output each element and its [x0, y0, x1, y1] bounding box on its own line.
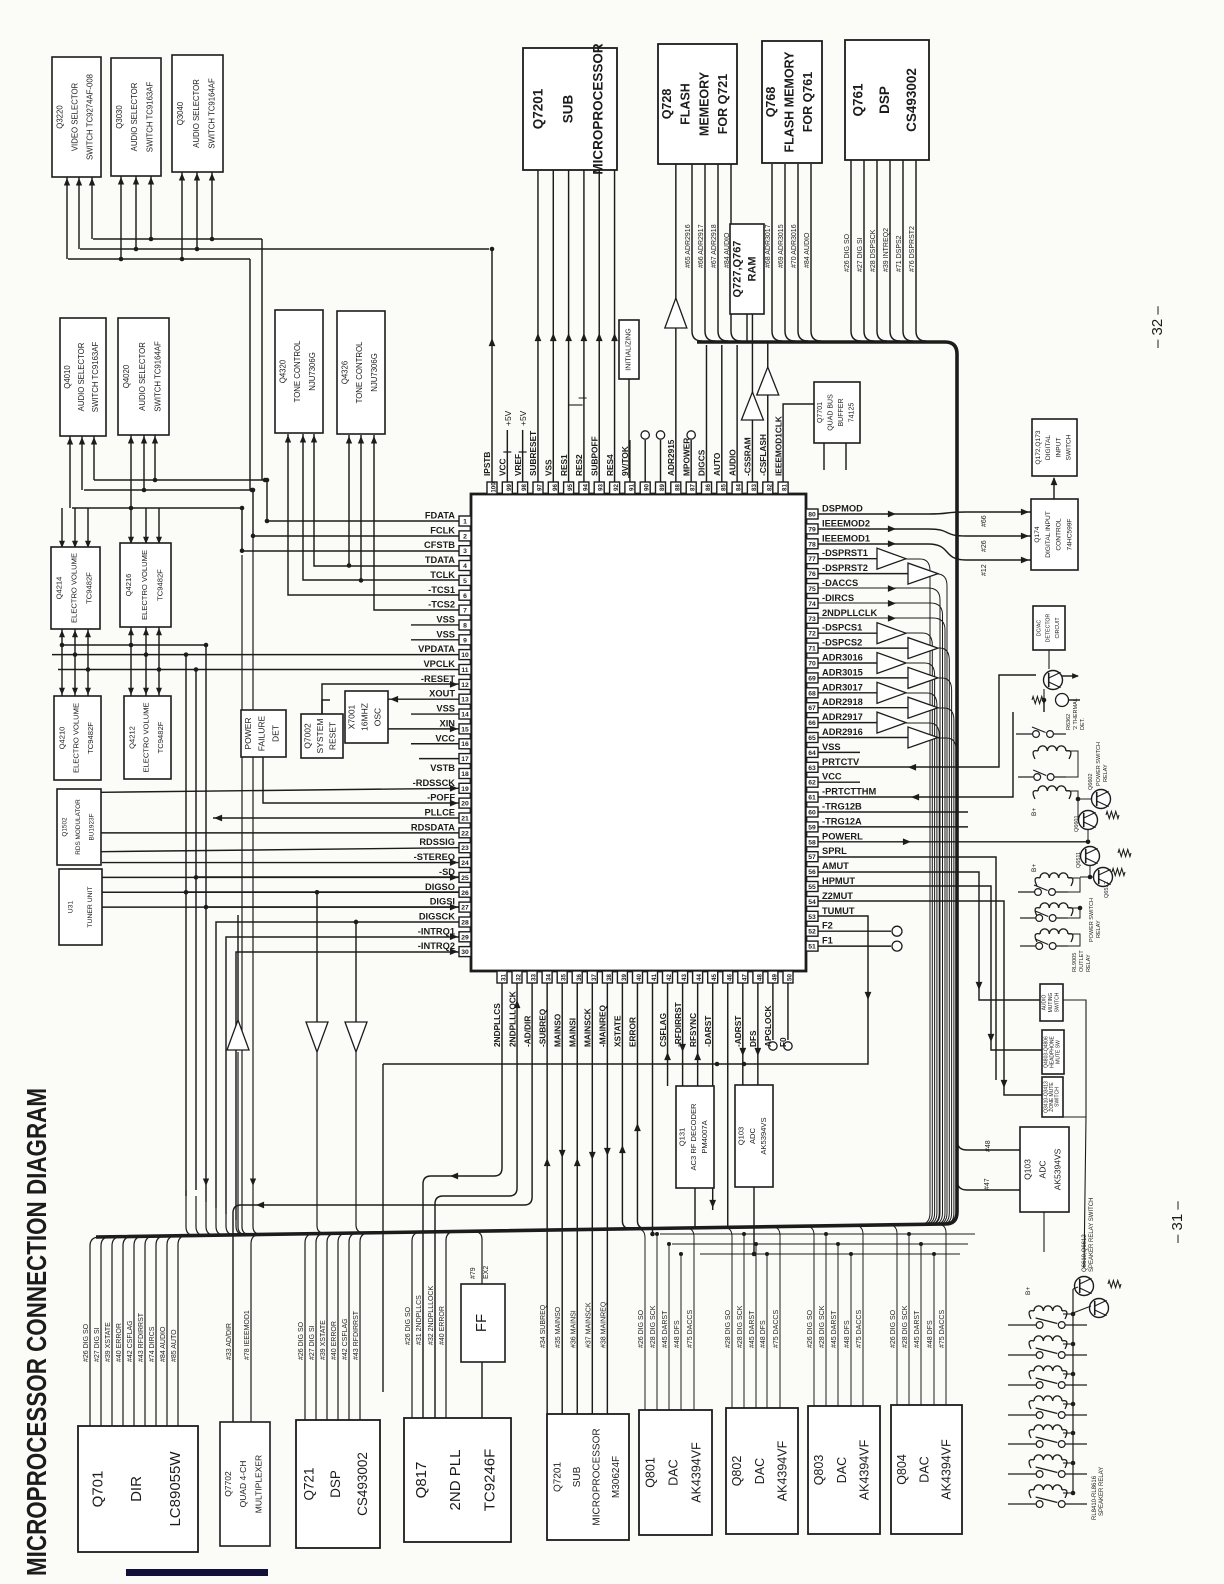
svg-text:RELAY: RELAY	[1096, 920, 1102, 938]
svg-text:-TCS1: -TCS1	[428, 585, 455, 595]
svg-text:#28 DIG SCK: #28 DIG SCK	[650, 1305, 657, 1348]
svg-text:INITIALIZING: INITIALIZING	[625, 328, 632, 370]
svg-text:Q727,Q767: Q727,Q767	[732, 241, 744, 298]
svg-text:AUDIO SELECTOR: AUDIO SELECTOR	[138, 342, 147, 411]
svg-text:DIR: DIR	[128, 1476, 145, 1502]
svg-text:ELECTRO VOLUME: ELECTRO VOLUME	[72, 703, 81, 773]
svg-text:Q3220: Q3220	[56, 105, 65, 129]
svg-text:VCC: VCC	[435, 733, 455, 743]
svg-text:90: 90	[644, 484, 651, 491]
svg-text:#26: #26	[981, 540, 988, 552]
svg-text:M30624F: M30624F	[611, 1456, 622, 1498]
svg-text:#26 DIG SO: #26 DIG SO	[405, 1306, 412, 1345]
svg-text:ELECTRO VOLUME: ELECTRO VOLUME	[140, 550, 149, 620]
svg-text:18: 18	[461, 771, 469, 778]
svg-text:SPEAKER RELAY SWITCH: SPEAKER RELAY SWITCH	[1089, 1198, 1095, 1272]
svg-text:-DARST: -DARST	[703, 1016, 713, 1047]
svg-text:F1: F1	[822, 936, 833, 946]
svg-text:#26 DIG SO: #26 DIG SO	[638, 1309, 645, 1348]
svg-text:87: 87	[690, 484, 697, 491]
svg-text:#42 CSFLAG: #42 CSFLAG	[342, 1318, 349, 1360]
svg-text:F0: F0	[778, 1037, 788, 1047]
svg-text:DIGITAL: DIGITAL	[1045, 435, 1052, 460]
svg-text:+5V: +5V	[503, 410, 513, 426]
svg-text:Q7701: Q7701	[817, 402, 824, 423]
svg-text:FAILURE: FAILURE	[257, 715, 267, 751]
svg-text:EX2: EX2	[483, 1266, 490, 1279]
svg-text:AK4394VF: AK4394VF	[776, 1440, 790, 1501]
svg-text:RL9005: RL9005	[1072, 953, 1078, 972]
svg-text:VIDEO SELECTOR: VIDEO SELECTOR	[71, 82, 80, 151]
svg-text:-ADRST: -ADRST	[733, 1016, 743, 1047]
svg-text:50: 50	[786, 974, 793, 981]
svg-text:ADR3015: ADR3015	[822, 667, 863, 677]
svg-text:#75 DACCS: #75 DACCS	[939, 1310, 946, 1348]
svg-text:#39 XSTATE: #39 XSTATE	[105, 1322, 112, 1362]
svg-text:67: 67	[808, 705, 816, 712]
svg-text:B+: B+	[1031, 808, 1038, 816]
svg-text:FCLK: FCLK	[430, 525, 455, 535]
svg-text:#45 DARST: #45 DARST	[749, 1310, 756, 1348]
svg-text:27: 27	[461, 905, 469, 912]
svg-text:#66 ADR2917: #66 ADR2917	[698, 224, 705, 268]
svg-text:-STEREO: -STEREO	[414, 852, 455, 862]
svg-text:70: 70	[808, 661, 816, 668]
svg-text:ADR3017: ADR3017	[822, 682, 863, 692]
svg-text:71: 71	[808, 646, 816, 653]
svg-text:RAM: RAM	[747, 256, 759, 281]
svg-text:-TRG12A: -TRG12A	[822, 816, 862, 826]
svg-text:MPOWER: MPOWER	[681, 438, 691, 476]
svg-text:66: 66	[808, 720, 816, 727]
svg-text:Q1502: Q1502	[62, 817, 69, 837]
svg-text:BU1923F: BU1923F	[88, 813, 95, 840]
svg-text:33: 33	[531, 974, 538, 981]
svg-text:MICROPROCESSOR: MICROPROCESSOR	[591, 1428, 602, 1525]
svg-text:NJU7306G: NJU7306G	[370, 353, 379, 392]
svg-text:#39 XSTATE: #39 XSTATE	[320, 1320, 327, 1360]
svg-text:#28 DIG SCK: #28 DIG SCK	[902, 1305, 909, 1348]
svg-text:26: 26	[461, 890, 469, 897]
svg-text:32: 32	[516, 974, 523, 981]
svg-text:ELECTRO VOLUME: ELECTRO VOLUME	[70, 553, 79, 623]
svg-text:POWER SWITCH: POWER SWITCH	[1096, 742, 1102, 786]
svg-text:XOUT: XOUT	[429, 689, 455, 699]
svg-text:9V/TOK: 9V/TOK	[620, 446, 630, 476]
svg-text:Q6512: Q6512	[1104, 881, 1110, 898]
svg-text:57: 57	[808, 854, 816, 861]
svg-text:92: 92	[613, 484, 620, 491]
svg-text:#28 DIG SCK: #28 DIG SCK	[737, 1305, 744, 1348]
svg-text:SWITCH: SWITCH	[1066, 434, 1073, 460]
svg-text:Q4320: Q4320	[279, 359, 288, 383]
svg-text:34: 34	[546, 974, 553, 981]
svg-text:#65 ADR2916: #65 ADR2916	[685, 224, 692, 268]
svg-text:+5V: +5V	[518, 410, 528, 426]
svg-text:13: 13	[461, 697, 469, 704]
svg-text:Q803: Q803	[812, 1455, 826, 1486]
svg-text:SWITCH: SWITCH	[1055, 1087, 1061, 1107]
svg-text:9: 9	[463, 637, 467, 644]
svg-text:39: 39	[621, 974, 628, 981]
svg-text:17: 17	[461, 756, 469, 763]
svg-text:#36 MAINSI: #36 MAINSI	[570, 1310, 577, 1348]
svg-text:29: 29	[461, 934, 469, 941]
svg-text:Z2MUT: Z2MUT	[822, 891, 853, 901]
svg-text:AUDIO SELECTOR: AUDIO SELECTOR	[192, 79, 201, 148]
svg-text:Q3030: Q3030	[115, 105, 124, 129]
svg-text:VCC: VCC	[498, 458, 508, 476]
svg-text:DSP: DSP	[328, 1470, 343, 1498]
svg-text:#84 AUDIO: #84 AUDIO	[804, 232, 811, 268]
svg-text:MAINSO: MAINSO	[552, 1013, 562, 1047]
svg-text:CSFLAG: CSFLAG	[658, 1013, 668, 1047]
svg-text:B+: B+	[1025, 1287, 1032, 1295]
svg-text:#78 IEEEMOD1: #78 IEEEMOD1	[244, 1310, 251, 1360]
svg-text:60: 60	[808, 810, 816, 817]
svg-text:-POFF: -POFF	[427, 793, 455, 803]
svg-text:XSTATE: XSTATE	[613, 1015, 623, 1047]
svg-text:Q801: Q801	[643, 1457, 657, 1488]
svg-text:AUDIO: AUDIO	[727, 449, 737, 476]
svg-text:#48 DFS: #48 DFS	[760, 1320, 767, 1348]
svg-text:10: 10	[461, 652, 469, 659]
svg-text:-INTRQ2: -INTRQ2	[418, 941, 455, 951]
svg-text:Q172,Q173: Q172,Q173	[1035, 430, 1042, 464]
svg-text:#42 CSFLAG: #42 CSFLAG	[127, 1320, 134, 1362]
svg-text:Q761: Q761	[851, 83, 866, 117]
svg-text:MUTE SW: MUTE SW	[1056, 1040, 1062, 1064]
svg-text:#48 DFS: #48 DFS	[844, 1320, 851, 1348]
svg-text:#47: #47	[984, 1178, 991, 1190]
svg-text:22: 22	[461, 830, 469, 837]
svg-text:DSP: DSP	[877, 86, 892, 114]
svg-text:Q701: Q701	[89, 1471, 106, 1508]
svg-text:SWITCH: SWITCH	[1054, 992, 1060, 1012]
svg-text:CFSTB: CFSTB	[424, 540, 455, 550]
svg-text:Q4212: Q4212	[127, 726, 136, 749]
svg-text:72: 72	[808, 631, 816, 638]
svg-text:80: 80	[808, 512, 816, 519]
svg-text:CIRCUIT: CIRCUIT	[1055, 617, 1061, 639]
svg-text:-DSPRST2: -DSPRST2	[822, 563, 868, 573]
svg-text:14: 14	[461, 712, 469, 719]
svg-text:#26 DIG SO: #26 DIG SO	[844, 233, 851, 272]
svg-text:#75 DACCS: #75 DACCS	[687, 1310, 694, 1348]
svg-text:SWITCH TC9164AF: SWITCH TC9164AF	[153, 341, 162, 412]
svg-text:#27 DIG SI: #27 DIG SI	[857, 237, 864, 272]
svg-text:TONE CONTROL: TONE CONTROL	[293, 340, 302, 402]
svg-text:VSS: VSS	[436, 614, 455, 624]
svg-text:#26 DIG SO: #26 DIG SO	[807, 1309, 814, 1348]
svg-text:#45 DARST: #45 DARST	[831, 1310, 838, 1348]
svg-text:93: 93	[598, 484, 605, 491]
svg-text:2NDPLLCS: 2NDPLLCS	[492, 1003, 502, 1047]
svg-text:Q817: Q817	[413, 1462, 430, 1499]
svg-text:2: 2	[463, 533, 467, 540]
svg-text:-SD: -SD	[439, 867, 455, 877]
svg-text:44: 44	[696, 974, 703, 981]
svg-text:Q728: Q728	[660, 89, 674, 120]
svg-text:#26 DIG SO: #26 DIG SO	[298, 1321, 305, 1360]
svg-text:#71 DSPS2: #71 DSPS2	[896, 235, 903, 272]
svg-text:MULTIPLEXER: MULTIPLEXER	[254, 1455, 264, 1513]
svg-text:FOR Q721: FOR Q721	[716, 74, 730, 134]
svg-text:#31 2NDPLLCS: #31 2NDPLLCS	[416, 1295, 423, 1345]
svg-text:RDSDATA: RDSDATA	[411, 822, 455, 832]
svg-text:#12: #12	[981, 564, 988, 576]
svg-text:SWITCH TC9274AF-008: SWITCH TC9274AF-008	[86, 74, 95, 160]
svg-text:SYSTEM: SYSTEM	[315, 719, 325, 754]
svg-text:#32 2NDPLLLOCK: #32 2NDPLLLOCK	[428, 1286, 435, 1345]
svg-text:52: 52	[808, 929, 816, 936]
svg-text:B+: B+	[1031, 864, 1038, 872]
svg-text:-RDSSCK: -RDSSCK	[413, 778, 456, 788]
svg-text:POWER SWITCH: POWER SWITCH	[1089, 898, 1095, 942]
svg-text:96: 96	[552, 484, 559, 491]
svg-text:#84 AUDIO: #84 AUDIO	[160, 1326, 167, 1362]
svg-text:VSS: VSS	[436, 704, 455, 714]
svg-text:#75 DACCS: #75 DACCS	[856, 1310, 863, 1348]
svg-text:#68 ADR3017: #68 ADR3017	[765, 224, 772, 268]
svg-text:MAINSI: MAINSI	[567, 1018, 577, 1047]
svg-text:#35 MAINSO: #35 MAINSO	[555, 1306, 562, 1348]
svg-text:8: 8	[463, 623, 467, 630]
svg-text:#48 DFS: #48 DFS	[927, 1320, 934, 1348]
svg-text:#43 RFDIRRST: #43 RFDIRRST	[353, 1310, 360, 1360]
svg-text:FLASH: FLASH	[679, 83, 693, 125]
svg-text:Q721: Q721	[302, 1467, 317, 1500]
svg-text:R6362: R6362	[1066, 714, 1072, 730]
svg-text:-DACCS: -DACCS	[822, 578, 858, 588]
svg-text:AUDIO SELECTOR: AUDIO SELECTOR	[130, 82, 139, 151]
svg-text:AK4394VF: AK4394VF	[689, 1442, 703, 1503]
svg-text:#40 ERROR: #40 ERROR	[331, 1321, 338, 1360]
svg-text:DIGSO: DIGSO	[425, 882, 455, 892]
svg-text:#37 MAINSCK: #37 MAINSCK	[585, 1302, 592, 1348]
svg-text:HPMUT: HPMUT	[822, 876, 855, 886]
svg-text:99: 99	[506, 484, 513, 491]
svg-text:MUTING: MUTING	[1048, 993, 1054, 1013]
svg-text:74HC599F: 74HC599F	[1067, 519, 1074, 551]
svg-text:-DIRCS: -DIRCS	[822, 593, 854, 603]
svg-text:FOR Q761: FOR Q761	[801, 72, 815, 132]
svg-text:-TRG12B: -TRG12B	[822, 802, 862, 812]
svg-text:ADR2916: ADR2916	[822, 727, 863, 737]
svg-text:VSS: VSS	[543, 459, 553, 476]
svg-text:FF: FF	[473, 1314, 490, 1332]
svg-text:74125: 74125	[849, 403, 856, 423]
svg-text:RESET: RESET	[328, 722, 338, 750]
svg-text:QUAD 4-CH: QUAD 4-CH	[238, 1461, 248, 1508]
svg-text:Q6602: Q6602	[1088, 773, 1094, 790]
svg-text:IEEEMOD2: IEEEMOD2	[822, 518, 870, 528]
svg-text:MICROPROCESSOR: MICROPROCESSOR	[590, 43, 605, 175]
svg-text:RES2: RES2	[574, 454, 584, 476]
svg-text:68: 68	[808, 690, 816, 697]
svg-text:#26 DIG SO: #26 DIG SO	[890, 1309, 897, 1348]
svg-text:SUBPOFF: SUBPOFF	[589, 436, 599, 476]
svg-text:#43 RFDIRRST: #43 RFDIRRST	[138, 1312, 145, 1362]
svg-text:-CSSRAM: -CSSRAM	[743, 437, 753, 476]
svg-text:#69 ADR3015: #69 ADR3015	[778, 224, 785, 268]
svg-text:69: 69	[808, 675, 816, 682]
svg-text:76: 76	[808, 571, 816, 578]
svg-text:#27 DIG SI: #27 DIG SI	[309, 1325, 316, 1360]
svg-text:#28 DSPSCK: #28 DSPSCK	[870, 229, 877, 272]
svg-text:SWITCH TC9163AF: SWITCH TC9163AF	[91, 342, 100, 413]
svg-text:AK4394VF: AK4394VF	[858, 1439, 872, 1500]
svg-text:Q4020: Q4020	[122, 364, 131, 388]
svg-text:#48: #48	[985, 1140, 992, 1152]
svg-text:83: 83	[751, 484, 758, 491]
svg-text:OSC: OSC	[373, 708, 383, 726]
svg-text:TDATA: TDATA	[425, 555, 455, 565]
svg-text:RDS MODULATOR: RDS MODULATOR	[75, 799, 82, 855]
svg-text:-MAINREQ: -MAINREQ	[598, 1005, 608, 1047]
svg-text:3: 3	[463, 548, 467, 555]
svg-text:Q7201: Q7201	[552, 1462, 563, 1492]
svg-text:#28 DIG SO: #28 DIG SO	[725, 1309, 732, 1348]
svg-text:-DSPCS2: -DSPCS2	[822, 638, 862, 648]
svg-text:Q3040: Q3040	[176, 101, 185, 125]
svg-text:15: 15	[461, 726, 469, 733]
svg-text:ERROR: ERROR	[628, 1017, 638, 1047]
svg-text:TC9482F: TC9482F	[85, 572, 94, 604]
svg-text:28: 28	[461, 920, 469, 927]
svg-text:SUB: SUB	[560, 95, 575, 124]
svg-text:64: 64	[808, 750, 816, 757]
svg-text:#85 AUTO: #85 AUTO	[171, 1329, 178, 1362]
svg-text:X7001: X7001	[347, 704, 357, 729]
svg-text:#45 DARST: #45 DARST	[914, 1310, 921, 1348]
svg-text:VSTB: VSTB	[430, 763, 455, 773]
svg-text:DIGCS: DIGCS	[697, 449, 707, 476]
svg-text:#27 DIG SI: #27 DIG SI	[94, 1327, 101, 1362]
svg-text:79: 79	[808, 526, 816, 533]
svg-text:VPDATA: VPDATA	[418, 644, 455, 654]
svg-text:86: 86	[705, 484, 712, 491]
svg-text:TUMUT: TUMUT	[822, 906, 855, 916]
svg-text:IEEEMOD1CLK: IEEEMOD1CLK	[773, 416, 783, 476]
svg-text:DET.: DET.	[1080, 718, 1086, 730]
svg-text:5: 5	[463, 578, 467, 585]
svg-text:SWITCH TC9163AF: SWITCH TC9163AF	[146, 82, 155, 153]
svg-text:SPEAKER RELAY: SPEAKER RELAY	[1099, 1467, 1105, 1516]
svg-text:OUTLET: OUTLET	[1079, 950, 1085, 972]
svg-text:TUNER UNIT: TUNER UNIT	[87, 886, 94, 927]
svg-text:#40 ERROR: #40 ERROR	[116, 1323, 123, 1362]
svg-text:IPSTB: IPSTB	[482, 452, 492, 476]
svg-text:2NDPLLLOCK: 2NDPLLLOCK	[507, 991, 517, 1047]
svg-text:FDATA: FDATA	[425, 511, 455, 521]
svg-text:#70 ADR3016: #70 ADR3016	[791, 224, 798, 268]
svg-text:DAC: DAC	[917, 1456, 931, 1482]
svg-text:DETECTOR: DETECTOR	[1046, 614, 1052, 643]
svg-text:DC/AC: DC/AC	[1036, 620, 1042, 636]
svg-text:1: 1	[463, 519, 467, 526]
svg-text:MEMEORY: MEMEORY	[697, 71, 711, 136]
svg-text:#45 DARST: #45 DARST	[662, 1310, 669, 1348]
svg-text:RL8410-RL8616: RL8410-RL8616	[1092, 1475, 1098, 1520]
svg-text:ADR2917: ADR2917	[822, 712, 863, 722]
svg-text:Q4214: Q4214	[55, 577, 64, 600]
svg-text:Q7002: Q7002	[302, 723, 312, 749]
svg-text:98: 98	[521, 484, 528, 491]
svg-text:PM4007A: PM4007A	[700, 1119, 709, 1153]
svg-text:48: 48	[756, 974, 763, 981]
svg-text:6: 6	[463, 593, 467, 600]
svg-text:40: 40	[636, 974, 643, 981]
svg-text:FLASH MEMORY: FLASH MEMORY	[783, 51, 797, 153]
svg-text:ADR2918: ADR2918	[822, 697, 863, 707]
svg-text:42: 42	[666, 974, 673, 981]
svg-text:65: 65	[808, 735, 816, 742]
svg-text:84: 84	[736, 484, 743, 491]
svg-text:ELECTRO VOLUME: ELECTRO VOLUME	[142, 702, 151, 772]
svg-text:#74 DIRCS: #74 DIRCS	[149, 1326, 156, 1362]
svg-text:CS493002: CS493002	[904, 68, 919, 132]
svg-text:21: 21	[461, 816, 469, 823]
svg-text:DET: DET	[270, 725, 280, 742]
svg-text:ADR2915: ADR2915	[666, 439, 676, 476]
svg-text:53: 53	[808, 914, 816, 921]
svg-text:62: 62	[808, 780, 816, 787]
svg-text:12: 12	[461, 682, 469, 689]
svg-text:Q6511: Q6511	[1076, 852, 1082, 868]
svg-text:Q6610,Q6612: Q6610,Q6612	[1082, 1234, 1088, 1272]
svg-text:RELAY: RELAY	[1086, 954, 1092, 972]
svg-text:-SUBREQ: -SUBREQ	[537, 1008, 547, 1047]
svg-text:RES4: RES4	[605, 454, 615, 476]
svg-text:Q7702: Q7702	[223, 1471, 233, 1497]
svg-text:IEEEMOD1: IEEEMOD1	[822, 533, 870, 543]
svg-text:94: 94	[582, 484, 589, 491]
svg-text:DSPMOD: DSPMOD	[822, 504, 863, 514]
svg-text:-AD/DIR: -AD/DIR	[522, 1016, 532, 1047]
svg-text:100: 100	[491, 482, 498, 493]
svg-text:AUDIO: AUDIO	[1042, 994, 1048, 1010]
svg-text:DIGSCK: DIGSCK	[419, 911, 455, 921]
svg-text:11: 11	[461, 667, 468, 674]
svg-text:#28 DIG SCK: #28 DIG SCK	[819, 1305, 826, 1348]
svg-text:VREF: VREF	[513, 454, 523, 476]
svg-text:AC3 RF DECODER: AC3 RF DECODER	[689, 1103, 698, 1171]
svg-text:-DSPCS1: -DSPCS1	[822, 623, 862, 633]
svg-text:37: 37	[591, 974, 598, 981]
svg-text:-RESET: -RESET	[421, 674, 455, 684]
svg-text:38: 38	[606, 974, 613, 981]
svg-text:RES1: RES1	[559, 454, 569, 476]
svg-text:ADR3016: ADR3016	[822, 653, 863, 663]
svg-text:2ND PLL: 2ND PLL	[447, 1450, 464, 1511]
svg-text:Q174: Q174	[1034, 526, 1041, 542]
svg-text:#48 DFS: #48 DFS	[674, 1320, 681, 1348]
svg-text:77: 77	[808, 556, 816, 563]
svg-text:74: 74	[808, 601, 816, 608]
svg-text:DAC: DAC	[666, 1459, 680, 1485]
svg-text:-CSFLASH: -CSFLASH	[758, 434, 768, 476]
svg-text:-INTRQ1: -INTRQ1	[418, 926, 455, 936]
svg-text:DFS: DFS	[748, 1030, 758, 1047]
svg-text:56: 56	[808, 869, 816, 876]
svg-text:U31: U31	[67, 901, 74, 914]
svg-text:MICROPROCESSOR CONNECTION DIAG: MICROPROCESSOR CONNECTION DIAGRAM	[21, 1088, 52, 1576]
svg-text:#33 AD/DIR: #33 AD/DIR	[226, 1323, 233, 1360]
svg-text:RFSYNC: RFSYNC	[688, 1013, 698, 1047]
svg-text:QUAD BUS: QUAD BUS	[828, 394, 835, 431]
svg-text:Q4010: Q4010	[63, 365, 72, 389]
